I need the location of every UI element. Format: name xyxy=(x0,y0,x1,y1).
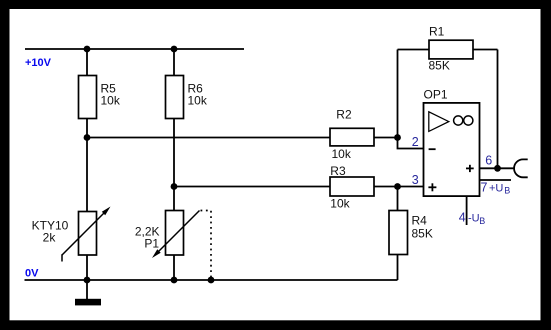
svg-text:B: B xyxy=(504,186,510,196)
wire feedback down to output xyxy=(497,50,499,169)
svg-text:B: B xyxy=(479,216,485,226)
wire feedback up from node 2 xyxy=(397,50,399,138)
svg-text:2k: 2k xyxy=(43,231,57,245)
node R6-R3 xyxy=(171,183,178,190)
svg-text:+10V: +10V xyxy=(25,57,52,69)
op-amp infinity symbol xyxy=(454,116,463,125)
svg-text:P1: P1 xyxy=(144,237,159,251)
op-amp U1 box xyxy=(424,103,480,196)
wire R6 bottom to node xyxy=(173,119,175,187)
svg-text:3: 3 xyxy=(412,173,419,187)
resistor R6 xyxy=(166,76,184,119)
node R5-R2 xyxy=(84,134,91,141)
svg-text:10k: 10k xyxy=(330,197,350,211)
svg-text:10k: 10k xyxy=(188,93,208,107)
connector output arc xyxy=(514,159,528,177)
sensor KTY10 xyxy=(79,212,97,256)
wire node to P1 top xyxy=(173,187,175,212)
P1 diagonal arrow line xyxy=(157,211,200,254)
node 0V-P1 xyxy=(171,277,178,284)
resistor R5 xyxy=(79,76,97,119)
P1 arrowhead xyxy=(152,249,161,258)
P1 wiper dotted wire xyxy=(201,211,212,281)
wire +10V top rail xyxy=(25,48,244,50)
potentiometer P1 xyxy=(166,211,184,256)
wire middle horizontal to R2 xyxy=(87,137,330,139)
svg-text:85K: 85K xyxy=(412,226,433,240)
svg-text:10k: 10k xyxy=(332,147,352,161)
svg-text:4: 4 xyxy=(459,210,466,224)
svg-text:R2: R2 xyxy=(336,108,352,122)
svg-text:OP1: OP1 xyxy=(424,88,448,102)
wire R5 top xyxy=(86,49,88,76)
wire R3 to node 3 xyxy=(374,186,398,188)
wire node 3 to pin3 xyxy=(398,186,424,188)
wire R4 bottom to 0V xyxy=(397,255,399,281)
svg-text:-U: -U xyxy=(468,213,480,225)
node output xyxy=(494,165,501,172)
svg-text:10k: 10k xyxy=(101,93,121,107)
wire ground stem xyxy=(86,280,88,299)
svg-text:2: 2 xyxy=(412,135,419,149)
op-amp plus sign output xyxy=(466,167,474,169)
svg-text:R3: R3 xyxy=(330,164,346,178)
KTY10 bent foot xyxy=(61,254,63,261)
svg-text:R4: R4 xyxy=(412,213,428,227)
resistor R4 xyxy=(389,211,408,255)
KTY10 arrowhead xyxy=(102,207,111,216)
wire R5 bottom to node xyxy=(86,119,88,138)
wire pin4 xyxy=(466,196,468,225)
wire R6 top xyxy=(173,49,175,76)
resistor R2 xyxy=(330,128,374,146)
wire pin6 output xyxy=(480,167,515,169)
svg-text:R1: R1 xyxy=(429,25,445,39)
svg-text:85K: 85K xyxy=(429,59,450,73)
wire node down to pin2 xyxy=(398,138,424,149)
KTY10 diagonal arrow line xyxy=(62,211,107,256)
ground bar xyxy=(75,299,101,306)
node rail-R5 xyxy=(84,46,91,53)
op-amp minus sign pin2 xyxy=(429,148,436,150)
svg-text:6: 6 xyxy=(485,153,492,167)
wire P1 bottom to 0V xyxy=(173,255,175,280)
node rail-R6 xyxy=(171,46,178,53)
wire lower horizontal to R3 xyxy=(174,186,330,188)
wire node to KTY10 top xyxy=(86,138,88,213)
svg-text:0V: 0V xyxy=(25,268,39,280)
resistor R3 xyxy=(330,177,374,196)
wire R1 right xyxy=(473,49,498,51)
wire R4 top xyxy=(397,187,399,212)
resistor R1 xyxy=(429,40,473,59)
op-amp plus sign pin3 xyxy=(428,186,436,188)
wire to R1 left xyxy=(398,49,430,51)
op-amp triangle xyxy=(429,112,449,132)
node 3 xyxy=(394,183,401,190)
node 0V-KTY xyxy=(84,277,91,284)
svg-text:7: 7 xyxy=(481,180,488,194)
wire R2 to node 2 xyxy=(374,137,398,139)
node 2 xyxy=(394,134,401,141)
wire pin7 xyxy=(480,179,512,181)
svg-text:+U: +U xyxy=(489,182,503,194)
node 0V-wiper xyxy=(208,277,215,284)
wire 0V rail xyxy=(25,279,398,281)
wire KTY10 bottom to 0V xyxy=(86,255,88,280)
